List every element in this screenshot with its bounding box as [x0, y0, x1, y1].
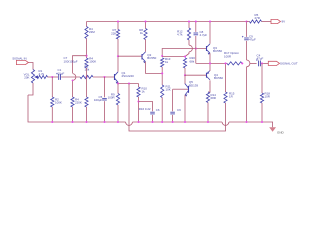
- svg-text:68R: 68R: [211, 96, 216, 100]
- wire to R10: [138, 84, 140, 88]
- port 9V tag: [271, 19, 281, 23]
- svg-text:10R: 10R: [265, 95, 270, 99]
- capacitor C6 100n: [150, 111, 155, 113]
- junction Q4 base node: [184, 74, 186, 76]
- wire 68k to Q4 base node: [184, 68, 186, 75]
- svg-text:4.7k: 4.7k: [39, 72, 45, 76]
- resistor R7 22K: [116, 30, 119, 40]
- svg-text:100µF: 100µF: [94, 98, 103, 102]
- wire Q2 emitter down: [146, 62, 163, 74]
- svg-text:22M: 22M: [89, 30, 95, 34]
- junction out feedback: [224, 62, 226, 64]
- wire C5 to rail: [104, 101, 106, 122]
- svg-text:10k: 10k: [85, 68, 90, 72]
- wire R9 to rail: [117, 105, 119, 122]
- junction signal at x86: [85, 76, 87, 78]
- svg-text:C9: C9: [177, 108, 181, 112]
- resistor R4c 100K: [85, 58, 88, 68]
- wire bias loop to x72: [73, 56, 87, 73]
- junction R1/C1/R2: [51, 76, 53, 78]
- wire C8 top: [195, 22, 197, 32]
- resistor R13 1k: [161, 58, 164, 67]
- junction R11 ground: [161, 121, 163, 123]
- wire hop of ground rail over feedback left: [126, 122, 133, 125]
- svg-text:4.7µF: 4.7µF: [200, 33, 208, 37]
- wire C6 to rail: [152, 115, 154, 122]
- wire R2 column: [51, 77, 53, 97]
- svg-text:100R: 100R: [224, 54, 231, 58]
- junction bias loop takeoff: [85, 55, 87, 57]
- wire bottom ground rail mid part: [132, 121, 222, 123]
- wire R2 to rail: [51, 107, 53, 122]
- junction Q5 ground: [184, 121, 186, 123]
- resistor R6 10k: [80, 75, 93, 78]
- resistor R10 1k: [137, 87, 140, 97]
- wire Q5 base wire: [173, 88, 189, 90]
- wire R13 to Q3 base: [162, 49, 206, 57]
- wire input tag to pot: [28, 63, 33, 70]
- junction rail x118: [117, 20, 119, 22]
- wire R7 top: [117, 22, 119, 30]
- potentiometer wiper arrow: [35, 76, 38, 78]
- junction C8col/Q3base: [195, 47, 197, 49]
- wire Q5 emitter down: [184, 95, 186, 122]
- wire supply col top: [246, 22, 248, 37]
- wire R13 top to 68k node: [162, 56, 185, 58]
- transistor Q3 BC550: [206, 46, 208, 51]
- wire R13 down: [161, 67, 163, 85]
- junction R7/Q2 base: [117, 55, 119, 57]
- wire C1 to R6: [61, 76, 80, 78]
- svg-text:BD139: BD139: [189, 83, 198, 87]
- wire R17 to C4: [242, 62, 243, 64]
- wire Q1 emitter node: [118, 83, 139, 85]
- port SIGNAL OUT tag: [268, 61, 279, 65]
- wire Q3 emitter to node: [209, 53, 211, 63]
- wire Q4 collector to node: [209, 63, 211, 71]
- junction x72 ground: [71, 121, 73, 123]
- wire output node: [196, 62, 227, 64]
- wire R5 to 9V tag: [262, 21, 272, 23]
- resistor R14 68R: [206, 92, 209, 103]
- capacitor C1 10uF: [58, 74, 60, 80]
- junction out Q3Q4: [209, 62, 211, 64]
- junction rail x145: [144, 20, 146, 22]
- wire Q3 collector to rail: [209, 22, 211, 44]
- junction C6b ground: [172, 121, 174, 123]
- svg-text:GND: GND: [277, 130, 285, 134]
- junction rail x210: [209, 20, 211, 22]
- wire bottom ground rail right part: [229, 122, 273, 127]
- svg-text:47µF: 47µF: [249, 38, 256, 42]
- capacitor C5 100uF: [102, 97, 107, 99]
- resistor R16b 10R: [260, 93, 263, 103]
- wire load col bottom: [261, 103, 263, 122]
- wire R12 hop over base wire: [189, 45, 192, 52]
- junction x86 ground: [85, 121, 87, 123]
- junction R9 ground: [117, 121, 119, 123]
- capacitor C8 4.7uF: [194, 32, 199, 34]
- wire R8 to Q2 collector: [145, 40, 147, 52]
- svg-text:100/100µF: 100/100µF: [64, 59, 78, 63]
- svg-text:68k: 68k: [190, 59, 195, 63]
- transistor Q4 BC560: [206, 73, 208, 78]
- wire Q4 emitter down: [208, 80, 210, 92]
- svg-text:220K: 220K: [75, 101, 82, 105]
- svg-text:1R: 1R: [229, 95, 233, 99]
- wire supply col mid: [246, 41, 248, 60]
- junction C5 ground: [103, 121, 105, 123]
- svg-text:100R: 100R: [108, 96, 115, 100]
- resistor R8 1k: [144, 29, 147, 40]
- junction supply ground: [245, 121, 247, 123]
- transistor Q2 BC550: [141, 54, 143, 60]
- wire load col top: [261, 63, 263, 93]
- capacitor C6b 100n: [170, 111, 175, 113]
- wire R11 to rail: [161, 98, 163, 123]
- wire supply hop over out: [247, 60, 250, 67]
- svg-text:1k: 1k: [165, 60, 169, 64]
- svg-text:27R: 27R: [255, 16, 260, 20]
- wire feedback vertical top: [225, 63, 227, 92]
- wire R4c down: [86, 68, 88, 97]
- wire R8 top: [145, 22, 147, 29]
- junction out x262: [261, 62, 263, 64]
- wire hop x72 over signal: [73, 74, 76, 81]
- wire R7 down to Q1 collector: [117, 39, 119, 72]
- wire Q4 base node down to Q5 collector: [184, 75, 186, 84]
- svg-text:R16 0.22: R16 0.22: [139, 107, 151, 111]
- junction Q2em/R13: [161, 72, 163, 74]
- wire R10 down: [138, 97, 140, 122]
- wire C5 column: [104, 77, 106, 97]
- svg-text:22K: 22K: [111, 31, 116, 35]
- junction R17 out: [241, 62, 243, 64]
- junction emitter/R9: [117, 82, 119, 84]
- wire R9 column: [117, 84, 119, 94]
- wire C6 branch: [139, 102, 153, 112]
- svg-text:100K: 100K: [89, 60, 96, 64]
- svg-text:1k: 1k: [142, 90, 146, 94]
- wire pot bottom to ground rail: [28, 83, 33, 95]
- wire top power rail: [87, 21, 247, 23]
- junction R2 ground: [51, 121, 53, 123]
- wire R12 arc to 68k node: [185, 52, 189, 57]
- junction below hop x72: [72, 80, 74, 82]
- svg-text:BC550: BC550: [213, 49, 222, 53]
- wire to C4: [250, 62, 257, 64]
- wire C6b to rail: [172, 115, 174, 122]
- wire C8 down to out wire: [195, 36, 197, 64]
- wire x72 down: [72, 80, 74, 97]
- svg-text:4.7k: 4.7k: [177, 32, 183, 36]
- junction rail x189: [188, 20, 190, 22]
- ground symbol GND arrow: [269, 127, 276, 132]
- resistor R12 4.7k: [187, 28, 190, 40]
- transistor Q1 2SC2240: [114, 74, 116, 80]
- svg-text:100K: 100K: [55, 101, 62, 105]
- junction R10/C6: [137, 100, 139, 102]
- wire supply col bottom: [246, 67, 248, 122]
- capacitor C4 47uF: [258, 61, 260, 67]
- potentiometer VOL 20K: [31, 70, 34, 84]
- wire Q1 emitter down: [117, 82, 119, 83]
- svg-text:1k: 1k: [140, 31, 144, 35]
- transistor Q5 BD139: [188, 86, 190, 93]
- junction 68k top: [184, 55, 186, 57]
- junction emitter/feedback: [128, 82, 130, 84]
- junction C6 ground: [151, 121, 153, 123]
- wire feedback loop: [129, 84, 226, 132]
- wire R12 down to arc: [188, 40, 190, 45]
- resistor R1 4.7k: [37, 75, 48, 78]
- svg-text:10K: 10K: [166, 88, 171, 92]
- resistor R11 10K: [161, 85, 164, 98]
- capacitor C9 47uF: [244, 37, 249, 39]
- svg-text:C6: C6: [156, 108, 160, 112]
- wire R3 to rail: [86, 107, 88, 122]
- junction R13 top: [161, 55, 163, 57]
- wire rail corner into R4a: [86, 22, 88, 27]
- svg-text:BC560: BC560: [214, 76, 223, 80]
- wire Q4 base wire: [185, 74, 207, 76]
- wire Q2 base wire: [118, 55, 142, 57]
- resistor R5 27R: [250, 20, 262, 23]
- resistor R17 Option 100R: [227, 62, 242, 65]
- svg-text:47µF: 47µF: [257, 56, 264, 60]
- svg-text:SIGNAL OUT: SIGNAL OUT: [280, 61, 298, 65]
- wire R4a down: [86, 39, 88, 59]
- junction rail x196: [195, 20, 197, 22]
- wire rail to R5: [247, 21, 250, 23]
- junction signal at x104: [103, 76, 105, 78]
- svg-text:BC550: BC550: [147, 56, 156, 60]
- wire bottom ground rail left part: [28, 95, 126, 122]
- junction R14 ground: [207, 121, 209, 123]
- wire R1 to C1: [48, 76, 59, 78]
- resistor R4b 220K: [71, 97, 74, 107]
- wire R14 to rail: [207, 103, 209, 123]
- wire Q5 base column: [172, 89, 174, 111]
- wire R12 top: [188, 22, 190, 29]
- wire hop of ground rail over feedback right: [222, 122, 229, 125]
- junction R10 ground: [137, 121, 139, 123]
- resistor R2 100K: [51, 97, 54, 107]
- resistor R9 100R: [116, 94, 119, 106]
- junction rail x246: [245, 20, 247, 22]
- resistor R20 68k: [183, 58, 186, 68]
- resistor R4 22M: [85, 27, 88, 39]
- junction load ground: [261, 121, 263, 123]
- svg-text:2SC2240: 2SC2240: [122, 74, 135, 78]
- wire R6 to Q1 base column: [93, 76, 115, 78]
- svg-text:9V: 9V: [282, 20, 286, 24]
- resistor R15 1R: [224, 92, 227, 103]
- resistor R3 220K: [85, 97, 88, 107]
- port SIGNAL IN tag: [16, 60, 28, 64]
- svg-text:20K: 20K: [24, 75, 29, 79]
- wire x72 to rail: [72, 107, 74, 122]
- wire C4 to tag: [263, 62, 268, 64]
- svg-text:10µF: 10µF: [58, 71, 65, 75]
